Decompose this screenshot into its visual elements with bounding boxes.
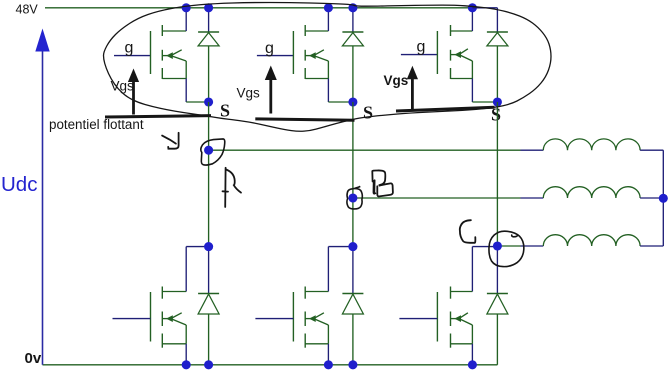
wire coil C to star point: [640, 245, 663, 247]
svg-text:S: S: [220, 101, 230, 121]
wire source Q3' to 0v: [471, 325, 473, 344]
svg-text:Vgs: Vgs: [111, 79, 135, 94]
svg-text:Vgs: Vgs: [237, 86, 261, 101]
wire drain jog Q1' (low side): [186, 246, 208, 248]
node diode D1' on 0v rail: [204, 360, 213, 369]
hand-drawn circle around node A: [201, 139, 225, 165]
node phase junction leg2: [348, 242, 357, 251]
svg-text:g: g: [125, 40, 134, 57]
node S2 (source, floating): [348, 97, 357, 106]
Vgs arrow Q2: [269, 79, 272, 114]
wire phase A to coil: [209, 149, 521, 151]
inductor phase C winding: [543, 235, 640, 246]
svg-text:g: g: [417, 39, 426, 56]
transistor Q2' (low-side MOSFET): [292, 292, 294, 342]
node phase B: [348, 193, 357, 202]
floating potential bar leg1: [105, 116, 211, 117]
hand-written letter A (phase A): [223, 168, 242, 207]
node source Q3' on 0v rail: [468, 360, 477, 369]
node phase A: [204, 146, 213, 155]
node source Q1' on 0v rail: [182, 360, 191, 369]
hand-drawn circle around node C: [489, 231, 524, 266]
node diode D2 on 48V rail: [348, 3, 357, 12]
hand-written letter C (phase C): [460, 220, 476, 243]
wire gate lead Q3' (low side): [399, 318, 437, 320]
node S1 (source, floating): [204, 97, 213, 106]
wire source Q1: [185, 61, 187, 79]
hand-written letter B (phase B): [372, 170, 393, 196]
wire phase B to coil: [353, 197, 521, 199]
wire gate lead Q1 (high side): [114, 55, 151, 57]
transistor Q3' (low-side MOSFET): [436, 292, 438, 342]
wire star point vertical: [662, 150, 664, 246]
wire leg3 S to node C: [496, 102, 498, 247]
hand-drawn arrow to node A: [162, 136, 176, 144]
svg-text:0v: 0v: [25, 350, 42, 367]
floating potential bar leg3: [396, 107, 495, 111]
node drain Q1 on 48V rail: [182, 3, 191, 12]
node diode D2' on 0v rail: [348, 360, 357, 369]
Vgs arrow Q3: [411, 78, 414, 109]
wire 48V top rail: [45, 7, 472, 9]
diode D2' (body diode low side): [352, 247, 354, 294]
voltage arrow Udc shaft: [42, 50, 44, 365]
hand-drawn loop around floating high-side section: [104, 3, 552, 132]
wire drain Q1: [185, 8, 187, 31]
wire source Q1' to 0v: [185, 325, 187, 344]
diode D2 (body diode high side): [352, 8, 354, 32]
node diode D1 on 48V rail: [204, 3, 213, 12]
wire gate lead Q3 (high side): [401, 54, 438, 56]
svg-text:S: S: [363, 103, 373, 123]
svg-text:48V: 48V: [16, 3, 39, 17]
wire source Q3: [471, 61, 473, 79]
transistor Q3 (high-side MOSFET): [436, 31, 438, 74]
diode D3' (body diode low side): [496, 247, 498, 294]
transistor Q2 (high-side MOSFET): [292, 31, 294, 74]
wire coil B to star point: [640, 197, 663, 199]
wire drain Q2: [327, 8, 329, 31]
inductor phase B winding: [543, 187, 640, 198]
wire leg1 S to node A to lower bridge: [208, 102, 210, 247]
Vgs arrow Q1: [132, 81, 135, 115]
inductor phase A winding: [543, 139, 640, 150]
node star point (neutral): [659, 194, 668, 203]
wire source Q2: [327, 61, 329, 79]
wire gate lead Q2' (low side): [255, 318, 293, 320]
node drain Q2 on 48V rail: [324, 3, 333, 12]
node phase junction leg1: [204, 242, 213, 251]
node S3 (source, floating): [493, 97, 502, 106]
diode D1' (body diode low side): [208, 247, 210, 294]
voltage arrow Udc head: [35, 29, 49, 52]
wire coil A to star point: [640, 149, 663, 151]
svg-text:g: g: [265, 40, 274, 57]
wire rail jog to D3: [472, 7, 497, 9]
wire drain jog Q2' (low side): [328, 246, 353, 248]
diode D1 (body diode high side): [208, 8, 210, 32]
wire drain jog Q3' (low side): [472, 246, 497, 248]
wire phase C to coil: [497, 245, 520, 247]
diode D3 (body diode high side): [496, 8, 498, 32]
svg-text:Vgs: Vgs: [384, 73, 409, 88]
wire leg2 S to node B to lower bridge: [352, 102, 354, 247]
transistor Q1 (high-side MOSFET): [150, 31, 152, 74]
floating potential bar leg2: [255, 119, 354, 120]
wire 0v bottom rail: [43, 364, 498, 366]
svg-text:potentiel flottant: potentiel flottant: [49, 117, 144, 132]
svg-text:Udc: Udc: [1, 173, 37, 196]
node phase C: [493, 241, 502, 250]
node drain Q3 on 48V rail: [468, 3, 477, 12]
wire drain Q3: [471, 8, 473, 31]
wire gate lead Q1' (low side): [113, 318, 151, 320]
transistor Q1' (low-side MOSFET): [150, 292, 152, 342]
node source Q2' on 0v rail: [324, 360, 333, 369]
wire source Q2' to 0v: [327, 325, 329, 344]
wire gate lead Q2 (high side): [257, 55, 294, 57]
hand-drawn circle around node B: [347, 186, 362, 209]
